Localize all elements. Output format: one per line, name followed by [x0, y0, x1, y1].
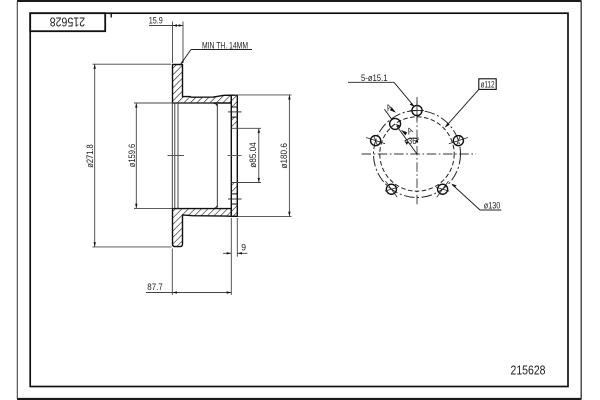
section arrow A upper — [390, 107, 396, 113]
dim 87.7 — [146, 249, 231, 296]
svg-text:ø85.04: ø85.04 — [248, 142, 258, 168]
title box notch tick — [110, 13, 112, 17]
svg-text:ø112: ø112 — [481, 80, 495, 90]
svg-text:ø130: ø130 — [484, 201, 501, 211]
dim 15.9 — [149, 22, 184, 64]
svg-text:9: 9 — [241, 243, 246, 253]
svg-text:5-ø15.1: 5-ø15.1 — [361, 73, 388, 83]
bolt hole gap edges (bottom) — [231, 193, 237, 195]
dim Ø271.8 — [93, 64, 172, 247]
dim Ø180.6 — [235, 95, 292, 216]
disc top bar + top flange (hatched body) — [173, 65, 232, 104]
title box top-left — [30, 13, 105, 31]
bolt circle Ø130 (dash-dot) — [374, 111, 461, 198]
leader MIN TH. 14MM — [181, 50, 252, 65]
dim Ø159.6 — [134, 103, 214, 208]
label Ø112 (boxed) — [479, 79, 496, 90]
fillet tangent line at hat corner — [216, 104, 218, 208]
bolt hole centerline tick (bottom) — [228, 198, 242, 200]
section centre line ticks — [168, 155, 185, 157]
radial line beyond service hole — [385, 109, 392, 119]
svg-text:MIN TH. 14MM: MIN TH. 14MM — [202, 40, 248, 50]
svg-text:ø271.8: ø271.8 — [85, 144, 95, 168]
bolt holes 5x Ø15.1 on Ø130 circle — [371, 105, 464, 194]
vertical centerline — [416, 97, 418, 205]
36 deg angle arc — [405, 138, 418, 141]
svg-text:36°: 36° — [408, 136, 420, 146]
drum inner vertical lines between flanges — [171, 103, 173, 209]
bolt hole centerline tick (top) — [228, 111, 242, 113]
section arrow A lower — [401, 130, 407, 136]
label Ø130 — [480, 209, 501, 211]
radial line center to service hole with arrow — [397, 126, 417, 154]
fillet arcs — [213, 103, 217, 106]
dim Ø85.04 — [231, 128, 261, 182]
svg-text:ø180.6: ø180.6 — [279, 143, 289, 169]
svg-text:ø159.6: ø159.6 — [127, 144, 137, 168]
label 5-Ø15.1 — [348, 81, 394, 83]
disc bottom bar + bottom flange (hatched body) — [173, 209, 232, 247]
bolt hole gap edges (top) — [231, 106, 237, 108]
service hole at 126deg on Ø112 — [390, 118, 401, 129]
circle Ø112 (dashed) — [380, 117, 454, 191]
hub mounting plate (hatched, with bore and bolt hole gaps) — [231, 95, 237, 107]
hole tick marks — [366, 101, 468, 198]
plate outline — [231, 95, 237, 216]
dim 9 — [223, 218, 248, 295]
svg-text:215628: 215628 — [50, 15, 86, 30]
svg-text:215628: 215628 — [511, 364, 546, 378]
svg-text:87.7: 87.7 — [147, 282, 163, 292]
horizontal centerline — [362, 153, 477, 155]
svg-text:15.9: 15.9 — [149, 15, 163, 25]
